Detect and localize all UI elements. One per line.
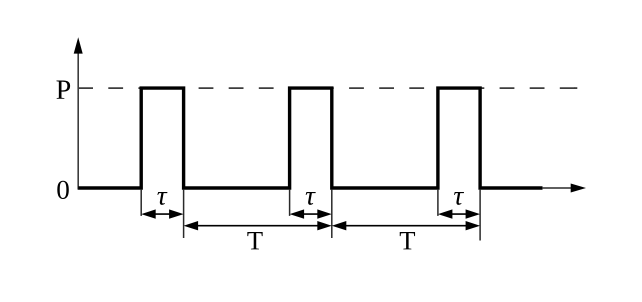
label tau 1 <box>157 192 167 205</box>
extension line pulse3 left <box>437 190 439 216</box>
extension line pulse2 right <box>331 190 333 238</box>
x-axis thin segment <box>542 187 572 189</box>
tau arrow 1 <box>141 209 183 218</box>
label T 1 <box>247 232 262 249</box>
label T 2 <box>400 232 415 249</box>
T arrow 1 <box>184 221 332 230</box>
dashed P level line <box>78 87 577 89</box>
extension line pulse2 left <box>289 190 291 216</box>
label tau 3 <box>454 192 464 205</box>
y-axis <box>77 44 79 190</box>
pulse train trace <box>78 88 542 188</box>
label P <box>56 80 70 98</box>
extension line pulse3 right <box>479 190 481 241</box>
label 0 <box>57 181 68 199</box>
T arrow 2 <box>332 221 480 230</box>
y-axis arrowhead <box>74 37 83 53</box>
extension line pulse1 left <box>140 190 142 216</box>
tau arrow 3 <box>438 209 480 218</box>
extension line pulse1 right <box>183 190 185 238</box>
tau arrow 2 <box>290 209 332 218</box>
dashed P level line last dash tail <box>574 87 577 89</box>
label tau 2 <box>306 192 316 205</box>
x-axis arrowhead <box>571 184 586 193</box>
